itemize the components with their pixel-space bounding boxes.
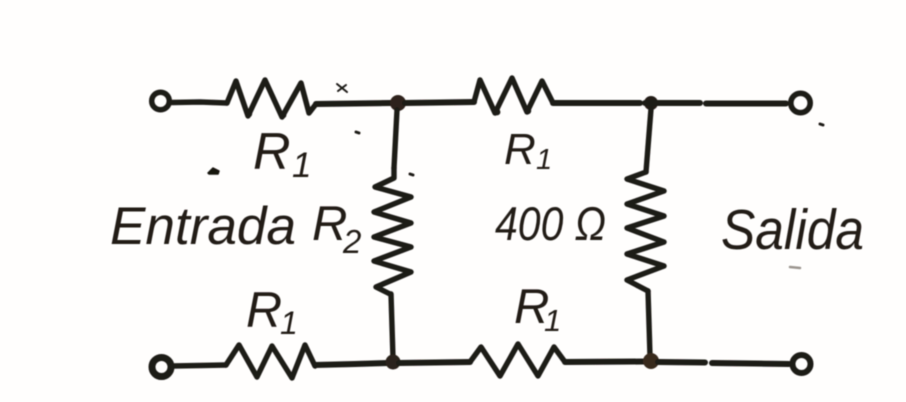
node top-right junction [645, 97, 657, 109]
svg-text:Entrada: Entrada [110, 197, 296, 256]
terminal bottom-left [152, 358, 171, 377]
speck dot right of R2 [410, 174, 413, 175]
wire bottom-mid-left [315, 363, 388, 365]
label R2 [312, 197, 361, 260]
wire top-left [172, 102, 227, 103]
wire to terminal top-right [645, 100, 786, 107]
label R1 top-right [504, 125, 552, 176]
resistor 400ohm vertical [627, 172, 664, 291]
svg-text:R: R [246, 282, 282, 338]
resistor R1 bottom-right [470, 344, 565, 376]
wire to terminal bottom-right [658, 362, 789, 364]
svg-text:1: 1 [292, 146, 311, 185]
resistor R2 vertical [374, 168, 411, 294]
wire vertical 400ohm bottom [648, 291, 650, 356]
svg-text:R: R [253, 123, 291, 181]
label R1 top-left [253, 123, 311, 185]
terminal bottom-right [793, 355, 811, 373]
wire top-mid-right [405, 102, 474, 103]
wire top-mid-left [316, 103, 391, 104]
wire top-right [553, 100, 640, 106]
label R1 bottom-left [246, 282, 298, 341]
wire vertical R2 top [394, 110, 397, 168]
speck blob left of R1 top-left [208, 168, 219, 174]
ink blobs at resistor valleys [246, 111, 252, 117]
node bottom-center junction [387, 356, 400, 369]
wire vertical R2 bottom [391, 294, 393, 358]
resistor R1 top-right [474, 78, 553, 113]
x mark speck [337, 84, 347, 92]
terminal top-left [152, 92, 170, 110]
node top-center junction [391, 96, 405, 110]
svg-text:1: 1 [544, 303, 561, 338]
wire bottom-left [172, 365, 226, 366]
speck dot below terminal top-right [820, 124, 823, 125]
svg-text:R: R [504, 125, 536, 174]
svg-text:400 Ω: 400 Ω [495, 197, 606, 250]
svg-text:1: 1 [280, 305, 298, 341]
label R1 bottom-right [514, 280, 561, 338]
node bottom-right junction [644, 354, 658, 368]
speck dot right of R1 top-left [356, 132, 359, 133]
svg-text:1: 1 [536, 144, 552, 176]
resistor R1 bottom-left [226, 345, 315, 378]
wire vertical 400ohm top [646, 109, 651, 172]
speck dash below Salida [790, 267, 800, 268]
svg-text:Salida: Salida [721, 198, 864, 262]
wire bottom-mid-right [399, 362, 470, 363]
svg-text:2: 2 [342, 223, 361, 260]
terminal top-right [791, 93, 810, 112]
wire bottom-right [565, 359, 645, 366]
resistor R1 top-left [227, 80, 316, 117]
